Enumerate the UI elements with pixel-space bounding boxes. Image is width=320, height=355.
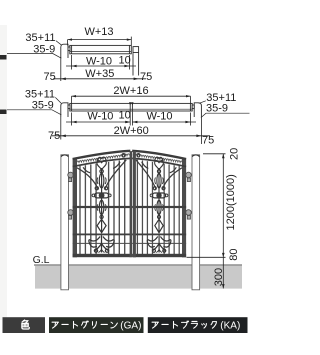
- side sweep left: [77, 160, 126, 190]
- cell color label: [3, 317, 46, 333]
- ext line post top: [203, 153, 226, 155]
- main vertical dim line: [222, 154, 224, 289]
- center curl near meeting stile: [122, 154, 125, 157]
- svg-text:1200(1000): 1200(1000): [225, 174, 237, 230]
- small tsu: [202, 323, 207, 328]
- svg-text:2W+60: 2W+60: [114, 125, 149, 137]
- scan edge strip: [0, 25, 7, 320]
- cell art green: [49, 317, 144, 333]
- svg-text:W+13: W+13: [84, 26, 113, 38]
- D1 dim W+13: [68, 37, 132, 46]
- svg-text:35+11: 35+11: [25, 32, 55, 44]
- ext line leaf bottom: [187, 256, 226, 258]
- svg-text:20: 20: [228, 148, 240, 160]
- left post elevation: [61, 154, 73, 289]
- thin rail: [73, 242, 131, 244]
- svg-text:W-10: W-10: [87, 111, 113, 123]
- D2 dim W-10 right: [132, 112, 196, 126]
- ra: [191, 321, 197, 328]
- heart drop: [97, 161, 106, 171]
- svg-text:10: 10: [119, 110, 131, 122]
- small inner curls: [83, 167, 90, 173]
- D1 left post hinge: [68, 47, 70, 51]
- to: [174, 321, 178, 328]
- svg-text:2W+16: 2W+16: [113, 85, 148, 97]
- svg-text:75: 75: [140, 71, 152, 83]
- D2 right post: [194, 103, 201, 117]
- D1 left post: [61, 44, 68, 58]
- cell art black: [148, 317, 248, 333]
- bar: [101, 323, 107, 325]
- svg-text:(KA): (KA): [220, 320, 240, 331]
- svg-text:10: 10: [119, 54, 131, 66]
- ri: [93, 322, 97, 329]
- ground fill: [35, 266, 242, 289]
- svg-text:75: 75: [202, 135, 214, 147]
- D2 leader 35+11 left: [55, 97, 61, 103]
- center stile left leaf: [130, 151, 133, 257]
- n: [111, 322, 117, 328]
- scan artifact blob 2: [0, 110, 7, 115]
- top center motif scrolls: [97, 154, 125, 171]
- svg-text:W-10: W-10: [146, 111, 172, 123]
- G.L line: [34, 264, 242, 266]
- bottom crown ornament: [89, 235, 114, 252]
- bars: [80, 160, 125, 255]
- D2 left post hinge: [68, 105, 70, 109]
- D1 leaf end stile left: [71, 45, 73, 53]
- right post elevation: [186, 154, 200, 289]
- D2 dim W-10 left: [66, 112, 130, 126]
- D2 leaf end stile right: [189, 103, 191, 111]
- D1 leader 35-9: [7, 53, 61, 58]
- cross: [95, 193, 109, 198]
- outer stile: [73, 158, 77, 257]
- to: [74, 321, 78, 328]
- kanji iro: [22, 320, 29, 329]
- svg-text:35-9: 35-9: [206, 103, 228, 115]
- arch rail 1: [73, 151, 131, 159]
- svg-text:G.L: G.L: [33, 254, 50, 266]
- gate left leaf: [73, 151, 131, 257]
- hinge upper right: [186, 172, 192, 178]
- svg-text:W+35: W+35: [85, 68, 114, 80]
- center stile right leaf: [133, 151, 136, 257]
- D1 dim W+35: [53, 58, 146, 81]
- bu: [182, 321, 189, 328]
- bar: [162, 323, 168, 325]
- hinge lower left: [68, 210, 74, 216]
- svg-text:80: 80: [228, 248, 240, 260]
- D2 gate bar: [70, 103, 192, 111]
- D1 leaf end stile right: [128, 45, 130, 53]
- bar: [62, 323, 68, 325]
- gu: [82, 321, 89, 328]
- top band lancet texture: [74, 154, 129, 164]
- svg-text:75: 75: [44, 71, 56, 83]
- D2 leader 35+11 right: [199, 101, 206, 104]
- D2 center meeting stiles: [129, 103, 131, 111]
- ku: [211, 322, 216, 329]
- mid rail 1: [73, 206, 131, 208]
- arch rail 2: [73, 158, 131, 166]
- D2 leaf end stile left: [71, 103, 73, 111]
- hinge upper left: [68, 172, 74, 178]
- bottom rail: [73, 254, 131, 257]
- elevation dimensions right side: [187, 154, 226, 289]
- a: [52, 322, 58, 328]
- D2 dim 2W+16: [72, 95, 191, 103]
- D2 left post: [61, 103, 68, 117]
- D1 right post cap: [133, 47, 139, 53]
- D2 leader 35-9 right: [201, 113, 250, 117]
- gate right leaf (mirror): [132, 151, 186, 257]
- ornament column: [92, 168, 111, 233]
- mid rail 2: [73, 234, 131, 236]
- side sweep right: [105, 160, 126, 190]
- D1 leaf inner line: [70, 51, 132, 53]
- svg-text:(GA): (GA): [120, 320, 141, 331]
- svg-text:300: 300: [213, 268, 225, 286]
- a: [152, 322, 158, 328]
- D1 right post extension lines: [132, 53, 134, 76]
- D2 leaf inner line: [70, 108, 192, 110]
- D2 dim 2W+60: [52, 117, 210, 144]
- D1 dim W-10: [66, 55, 136, 70]
- D1 leader 35+11: [56, 41, 61, 45]
- D2 right post hinge: [192, 105, 194, 109]
- D2 leader 35-9 left: [7, 110, 61, 115]
- hinge lower right: [186, 210, 192, 216]
- D1 gate leaf bar: [70, 45, 132, 53]
- svg-text:75: 75: [48, 130, 60, 142]
- scan artifact blob 1: [0, 55, 7, 60]
- svg-text:W-10: W-10: [86, 56, 112, 68]
